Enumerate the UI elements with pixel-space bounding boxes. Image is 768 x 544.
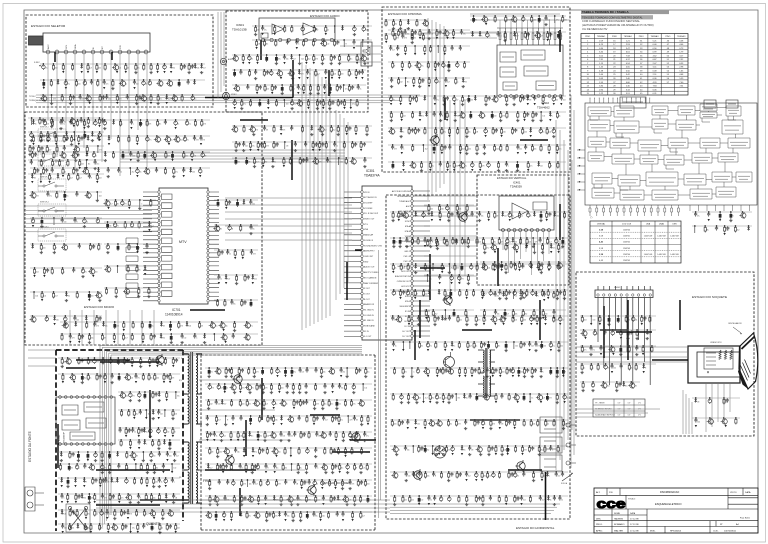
svg-text:47u: 47u — [552, 346, 555, 348]
svg-text:1k: 1k — [161, 528, 163, 530]
svg-text:473: 473 — [96, 326, 99, 328]
svg-text:4u7: 4u7 — [227, 279, 230, 281]
centelhador spark gap note — [728, 322, 742, 335]
svg-text:4u7: 4u7 — [224, 404, 227, 406]
components fonte — [58, 357, 180, 534]
svg-text:100: 100 — [502, 372, 505, 374]
svg-text:47u: 47u — [448, 450, 451, 452]
components soquete low — [580, 381, 640, 392]
svg-text:100: 100 — [566, 398, 569, 400]
wire bottom bus to soquete — [390, 504, 560, 514]
svg-text:F1 IN: F1 IN — [364, 331, 369, 333]
svg-text:10k: 10k — [564, 20, 567, 22]
deflection yoke connector CN402 — [434, 446, 446, 458]
wire CRT socket drops — [706, 383, 730, 432]
components micro left — [103, 199, 156, 298]
svg-text:100: 100 — [281, 388, 284, 390]
svg-text:473: 473 — [124, 204, 127, 206]
svg-text:104: 104 — [468, 216, 471, 218]
svg-text:4u7: 4u7 — [469, 346, 472, 348]
svg-text:100: 100 — [470, 100, 473, 102]
svg-text:10k: 10k — [109, 226, 112, 228]
svg-text:4u7: 4u7 — [110, 204, 113, 206]
svg-text:2k2: 2k2 — [132, 172, 135, 174]
svg-text:473: 473 — [502, 116, 505, 118]
svg-text:47u: 47u — [421, 116, 424, 118]
svg-text:47u: 47u — [242, 388, 245, 390]
svg-text:10k: 10k — [287, 516, 290, 518]
svg-text:SOUND/VIDEO CHG: SOUND/VIDEO CHG — [364, 245, 382, 247]
components under blockdiagram — [692, 211, 752, 235]
CRT funnel (picture tube neck) — [738, 333, 758, 389]
wire soquete risers — [683, 390, 692, 434]
svg-text:MTV: MTV — [179, 240, 187, 244]
svg-text:104: 104 — [487, 268, 490, 270]
svg-text:10k: 10k — [444, 372, 447, 374]
svg-text:AVCC/DECOUPLING: AVCC/DECOUPLING — [392, 190, 411, 193]
svg-text:47u: 47u — [149, 140, 152, 142]
svg-text:10k: 10k — [338, 404, 341, 406]
svg-text:1k: 1k — [453, 346, 455, 348]
svg-text:47u: 47u — [330, 404, 333, 406]
svg-text:CRISTAL: CRISTAL — [597, 223, 606, 226]
svg-text:2k2: 2k2 — [458, 476, 461, 478]
wire right column verticals — [379, 95, 575, 518]
svg-text:4u7: 4u7 — [146, 432, 149, 434]
svg-text:100: 100 — [102, 482, 105, 484]
svg-text:104: 104 — [156, 378, 159, 380]
svg-text:2k2: 2k2 — [408, 242, 411, 244]
svg-text:100: 100 — [95, 272, 98, 274]
svg-text:DISCRIMINACAO: DISCRIMINACAO — [660, 491, 679, 494]
svg-text:1k: 1k — [484, 116, 486, 118]
svg-text:100: 100 — [441, 209, 444, 211]
wire bus centre vertical 2 — [336, 110, 348, 300]
svg-text:10k: 10k — [533, 424, 536, 426]
svg-text:473: 473 — [148, 124, 151, 126]
svg-text:2k2: 2k2 — [124, 528, 127, 530]
svg-text:104: 104 — [266, 436, 269, 438]
svg-text:100: 100 — [466, 244, 469, 246]
components video area — [205, 367, 372, 522]
svg-text:47u: 47u — [584, 350, 587, 352]
svg-text:PROJ.: PROJ. — [596, 524, 603, 526]
svg-text:473: 473 — [132, 396, 135, 398]
tuner block TU101 — [29, 33, 151, 54]
svg-text:4u7: 4u7 — [447, 82, 450, 84]
svg-text:473: 473 — [113, 482, 116, 484]
svg-text:100: 100 — [514, 320, 517, 322]
svg-text:10k: 10k — [98, 68, 101, 70]
svg-text:104: 104 — [282, 436, 285, 438]
svg-text:2k2: 2k2 — [172, 68, 175, 70]
svg-text:TENSAO: TENSAO — [597, 35, 606, 38]
svg-text:ESTAGIO DO CHROMA: ESTAGIO DO CHROMA — [388, 12, 423, 16]
svg-text:100: 100 — [322, 516, 325, 518]
svg-text:PINO: PINO — [612, 36, 617, 38]
svg-text:1.4407.009: 1.4407.009 — [670, 236, 679, 238]
svg-text:1203704: 1203704 — [623, 254, 630, 256]
svg-text:IC301: IC301 — [366, 169, 375, 173]
svg-text:1k: 1k — [402, 132, 404, 134]
svg-text:10k: 10k — [726, 230, 729, 232]
svg-text:COD.: COD. — [713, 531, 719, 533]
svg-text:KINESCOPIO: KINESCOPIO — [710, 342, 722, 344]
svg-text:2k2: 2k2 — [525, 314, 528, 316]
svg-text:2k2: 2k2 — [456, 268, 459, 270]
svg-text:1k: 1k — [108, 514, 110, 516]
wire left mid runs — [28, 350, 56, 366]
svg-text:473: 473 — [266, 146, 269, 148]
svg-text:SWITCH-5: SWITCH-5 — [40, 227, 49, 229]
svg-text:TDA4662: TDA4662 — [537, 106, 550, 110]
svg-text:VDRB: VDRB — [405, 236, 411, 238]
svg-text:GND: GND — [364, 261, 369, 263]
svg-text:4u7: 4u7 — [146, 514, 149, 516]
svg-text:473: 473 — [180, 326, 183, 328]
svg-text:104: 104 — [438, 398, 441, 400]
svg-text:RAW CURRENZ: RAW CURRENZ — [364, 282, 379, 285]
svg-text:104: 104 — [183, 68, 186, 70]
svg-text:100: 100 — [520, 372, 523, 374]
svg-text:1k: 1k — [351, 74, 353, 76]
svg-text:1k: 1k — [134, 432, 136, 434]
svg-text:10k: 10k — [332, 452, 335, 454]
svg-text:47u: 47u — [697, 216, 700, 218]
components below vertical — [480, 291, 566, 320]
svg-text:47u: 47u — [49, 196, 52, 198]
svg-text:EXT AUDIO IN: EXT AUDIO IN — [364, 196, 377, 199]
svg-text:(*): (*) — [590, 217, 593, 219]
svg-text:USA2: USA2 — [659, 223, 665, 226]
svg-text:2k2: 2k2 — [167, 156, 170, 158]
svg-text:10k: 10k — [526, 116, 529, 118]
svg-text:SWITCH-3: SWITCH-3 — [40, 177, 49, 179]
svg-text:ETA 3: ETA 3 — [405, 300, 410, 303]
svg-text:104: 104 — [239, 436, 242, 438]
thick bus wires — [55, 30, 688, 516]
svg-text:4u7: 4u7 — [70, 178, 73, 180]
svg-text:100: 100 — [326, 44, 329, 46]
svg-text:473: 473 — [316, 404, 319, 406]
svg-text:2k2: 2k2 — [432, 398, 435, 400]
svg-text:2k2: 2k2 — [136, 414, 139, 416]
svg-text:47u: 47u — [47, 99, 50, 101]
svg-text:2k2: 2k2 — [613, 368, 616, 370]
svg-text:2k2: 2k2 — [631, 368, 634, 370]
key matrix connector boxes — [126, 238, 138, 298]
components audio area — [232, 54, 367, 110]
svg-text:473: 473 — [482, 166, 485, 168]
svg-text:RGB BLANK: RGB BLANK — [364, 325, 376, 328]
svg-text:104: 104 — [444, 320, 447, 322]
svg-text:Vcc DE MEDICAO 5V: Vcc DE MEDICAO 5V — [582, 27, 608, 31]
svg-text:100: 100 — [138, 99, 141, 101]
wire bus right vertical — [556, 120, 572, 470]
svg-text:47u: 47u — [106, 84, 109, 86]
svg-text:47u: 47u — [592, 350, 595, 352]
svg-text:4u7: 4u7 — [218, 420, 221, 422]
svg-text:47u: 47u — [62, 124, 65, 126]
svg-text:P.N.: P.N. — [609, 492, 613, 494]
svg-text:TP - TESTE: TP - TESTE — [595, 403, 605, 405]
svg-text:7,34: 7,34 — [679, 86, 683, 88]
CRT socket connector bar CN501 — [595, 286, 653, 385]
components fonte mid — [118, 391, 180, 450]
svg-text:100: 100 — [480, 372, 483, 374]
wire top right chroma — [420, 14, 570, 38]
svg-text:10k: 10k — [237, 162, 240, 164]
svg-text:100: 100 — [503, 132, 506, 134]
svg-text:47u: 47u — [607, 368, 610, 370]
wire bus top horizontal — [36, 95, 420, 103]
svg-text:10k: 10k — [430, 34, 433, 36]
svg-text:47u: 47u — [250, 326, 253, 328]
IC301 TDA8374A main jungle IC — [344, 169, 430, 340]
svg-text:SWITCH-2: SWITCH-2 — [40, 152, 49, 154]
svg-text:2k2: 2k2 — [519, 149, 522, 151]
svg-text:2k2: 2k2 — [540, 166, 543, 168]
svg-text:(LEITURAS PODEM VARIAR DE UM A: (LEITURAS PODEM VARIAR DE UM APARELHO P/… — [582, 23, 654, 27]
switches SW701-SW705 — [38, 127, 66, 242]
svg-text:2k2: 2k2 — [219, 468, 222, 470]
wire bus centre vertical — [302, 62, 330, 330]
svg-text:1k: 1k — [559, 116, 561, 118]
svg-text:ESTAGIO DO MICRO: ESTAGIO DO MICRO — [84, 305, 115, 309]
svg-text:104: 104 — [363, 452, 366, 454]
svg-text:ABC/TV TUNING: ABC/TV TUNING — [364, 271, 379, 274]
svg-text:473: 473 — [507, 20, 510, 22]
stage box ESTAGIO DO SOQUETE — [576, 272, 754, 436]
wire soquete feeds — [576, 347, 688, 417]
phono jack J602 — [222, 92, 237, 99]
svg-text:1k: 1k — [241, 468, 243, 470]
svg-text:1k: 1k — [360, 89, 362, 91]
svg-text:TITULO:: TITULO: — [628, 499, 636, 501]
svg-text:Fast 9201: Fast 9201 — [740, 517, 751, 520]
svg-text:2k2: 2k2 — [177, 528, 180, 530]
svg-text:IC701: IC701 — [172, 308, 181, 312]
svg-text:2k2: 2k2 — [725, 402, 728, 404]
svg-text:104: 104 — [130, 378, 133, 380]
svg-text:HOR OUT: HOR OUT — [401, 271, 411, 273]
svg-text:1140108914: 1140108914 — [165, 313, 183, 317]
svg-text:4u7: 4u7 — [168, 99, 171, 101]
svg-text:1k: 1k — [316, 484, 318, 486]
svg-text:1k: 1k — [340, 104, 342, 106]
wire IC301 to vertical stage — [424, 196, 477, 276]
svg-text:ESTAGIO DO VERTICAL: ESTAGIO DO VERTICAL — [497, 176, 527, 180]
horizontal output transistor Q402 — [443, 352, 455, 372]
svg-text:2k2: 2k2 — [541, 450, 544, 452]
svg-text:10k: 10k — [427, 476, 430, 478]
svg-text:2k2: 2k2 — [324, 130, 327, 132]
svg-text:473: 473 — [171, 378, 174, 380]
svg-text:1k: 1k — [420, 320, 422, 322]
svg-text:473: 473 — [282, 130, 285, 132]
svg-text:104: 104 — [408, 476, 411, 478]
svg-text:10k: 10k — [394, 320, 397, 322]
svg-text:104: 104 — [99, 196, 102, 198]
svg-text:47u: 47u — [421, 66, 424, 68]
components seletor area — [40, 63, 206, 105]
svg-text:10k: 10k — [534, 149, 537, 151]
wire bus video left verticals — [100, 346, 111, 531]
svg-text:4u7: 4u7 — [466, 398, 469, 400]
svg-text:100: 100 — [445, 66, 448, 68]
svg-text:100: 100 — [286, 104, 289, 106]
svg-text:1k: 1k — [101, 296, 103, 298]
svg-text:ALT.: ALT. — [596, 491, 601, 494]
svg-text:4u7: 4u7 — [303, 484, 306, 486]
svg-text:TENSOES TOMADAS COM VOLTIMETRO: TENSOES TOMADAS COM VOLTIMETRO DIGITAL — [582, 16, 643, 20]
svg-text:104: 104 — [101, 99, 104, 101]
svg-text:100: 100 — [169, 456, 172, 458]
svg-text:1k: 1k — [229, 254, 231, 256]
svg-text:473: 473 — [92, 248, 95, 250]
svg-text:1k: 1k — [398, 450, 400, 452]
svg-text:104: 104 — [132, 156, 135, 158]
svg-text:473: 473 — [53, 99, 56, 101]
svg-text:100: 100 — [91, 296, 94, 298]
svg-text:10k: 10k — [556, 216, 559, 218]
svg-text:2k2: 2k2 — [257, 30, 260, 32]
svg-text:47u: 47u — [352, 104, 355, 106]
svg-text:10k: 10k — [478, 242, 481, 244]
svg-text:473: 473 — [301, 74, 304, 76]
svg-text:4u7: 4u7 — [438, 82, 441, 84]
svg-text:SDA: SDA — [74, 44, 77, 49]
svg-text:1k: 1k — [286, 404, 288, 406]
svg-text:4u7: 4u7 — [542, 500, 545, 502]
svg-text:104: 104 — [193, 156, 196, 158]
svg-text:473: 473 — [516, 500, 519, 502]
svg-text:2k2: 2k2 — [404, 500, 407, 502]
svg-text:473: 473 — [535, 242, 538, 244]
svg-text:47u: 47u — [104, 468, 107, 470]
svg-text:473: 473 — [534, 116, 537, 118]
svg-text:2k2: 2k2 — [342, 372, 345, 374]
svg-text:1k: 1k — [64, 172, 66, 174]
svg-text:100: 100 — [146, 99, 149, 101]
svg-text:10k: 10k — [237, 452, 240, 454]
svg-text:104: 104 — [468, 149, 471, 151]
svg-text:1k: 1k — [490, 450, 492, 452]
svg-text:10k: 10k — [417, 424, 420, 426]
svg-text:T.P.M.C: T.P.M.C — [29, 96, 36, 98]
svg-text:100: 100 — [333, 74, 336, 76]
svg-text:1k: 1k — [327, 30, 329, 32]
components chroma mid — [388, 95, 566, 172]
svg-text:1k: 1k — [561, 500, 563, 502]
svg-text:2k2: 2k2 — [468, 476, 471, 478]
svg-text:ESTAGIO DO SOQUETE: ESTAGIO DO SOQUETE — [692, 295, 727, 299]
svg-text:47u: 47u — [67, 84, 70, 86]
op-amp IC601 TDA1013B — [232, 18, 335, 42]
svg-text:473: 473 — [302, 404, 305, 406]
svg-text:100: 100 — [278, 452, 281, 454]
stage box ESTAGIO DO HORIZONTAL — [386, 195, 570, 519]
svg-text:104: 104 — [456, 166, 459, 168]
wire chroma to IC502 — [500, 20, 561, 28]
svg-text:100: 100 — [56, 320, 59, 322]
svg-text:TENSAO: TENSAO — [624, 35, 633, 38]
svg-text:47u: 47u — [559, 149, 562, 151]
svg-text:104: 104 — [188, 326, 191, 328]
svg-text:100: 100 — [219, 452, 222, 454]
svg-text:BEAM/COR: BEAM/COR — [364, 303, 375, 306]
svg-text:473: 473 — [537, 346, 540, 348]
wire vertical stage drops — [503, 232, 549, 275]
svg-text:104: 104 — [35, 296, 38, 298]
svg-text:4u7: 4u7 — [450, 398, 453, 400]
svg-text:473: 473 — [458, 424, 461, 426]
stage box ESTAGIO DO VERTICAL — [477, 175, 569, 285]
svg-text:USR: USR — [672, 224, 677, 226]
svg-text:2k2: 2k2 — [427, 450, 430, 452]
svg-text:10k: 10k — [225, 326, 228, 328]
svg-text:1k: 1k — [475, 346, 477, 348]
svg-text:10k: 10k — [542, 116, 545, 118]
svg-text:1k: 1k — [324, 59, 326, 61]
svg-text:PINO: PINO — [585, 36, 590, 38]
svg-text:100: 100 — [434, 268, 437, 270]
svg-text:100: 100 — [242, 404, 245, 406]
svg-text:4u7: 4u7 — [558, 476, 561, 478]
svg-text:2k2: 2k2 — [451, 268, 454, 270]
stage box ESTAGIO DO MICRO — [25, 112, 262, 345]
svg-text:2k2: 2k2 — [84, 378, 87, 380]
svg-text:1k: 1k — [395, 268, 397, 270]
svg-text:CENTELHADOR: CENTELHADOR — [728, 322, 742, 325]
svg-text:104: 104 — [445, 398, 448, 400]
wire bus mid horizontal — [120, 150, 345, 162]
svg-text:1k: 1k — [430, 500, 432, 502]
svg-text:104: 104 — [531, 346, 534, 348]
svg-text:ESTAGIO DO HORIZONTAL: ESTAGIO DO HORIZONTAL — [516, 526, 555, 530]
svg-text:47u: 47u — [325, 104, 328, 106]
svg-text:473: 473 — [119, 99, 122, 101]
svg-text:1203703: 1203703 — [623, 248, 630, 250]
svg-text:4u7: 4u7 — [549, 242, 552, 244]
svg-text:1k: 1k — [309, 74, 311, 76]
label FRIO — [203, 479, 211, 483]
svg-text:104: 104 — [36, 272, 39, 274]
svg-text:17.12.98: 17.12.98 — [630, 531, 639, 533]
svg-text:2k2: 2k2 — [316, 30, 319, 32]
svg-text:4u7: 4u7 — [456, 100, 459, 102]
svg-text:10k: 10k — [407, 450, 410, 452]
svg-text:473: 473 — [394, 149, 397, 151]
wire bus chroma vertical 2 — [450, 100, 465, 300]
svg-text:MC44603P: MC44603P — [64, 432, 66, 443]
svg-text:4u7: 4u7 — [362, 468, 365, 470]
components top mid — [252, 25, 372, 49]
svg-text:47u: 47u — [121, 498, 124, 500]
svg-text:473: 473 — [243, 484, 246, 486]
IC701 1140108914 microcontroller MTV — [143, 188, 219, 317]
svg-text:G OUT: G OUT — [364, 293, 371, 295]
svg-text:2k2: 2k2 — [459, 320, 462, 322]
svg-text:100: 100 — [101, 122, 104, 124]
svg-text:10k: 10k — [197, 68, 200, 70]
svg-text:4u7: 4u7 — [125, 338, 128, 340]
svg-text:TENSAO: TENSAO — [677, 35, 686, 38]
svg-text:47u: 47u — [443, 132, 446, 134]
svg-text:100: 100 — [55, 68, 58, 70]
svg-text:DES.: DES. — [596, 519, 601, 521]
svg-text:10k: 10k — [430, 209, 433, 211]
